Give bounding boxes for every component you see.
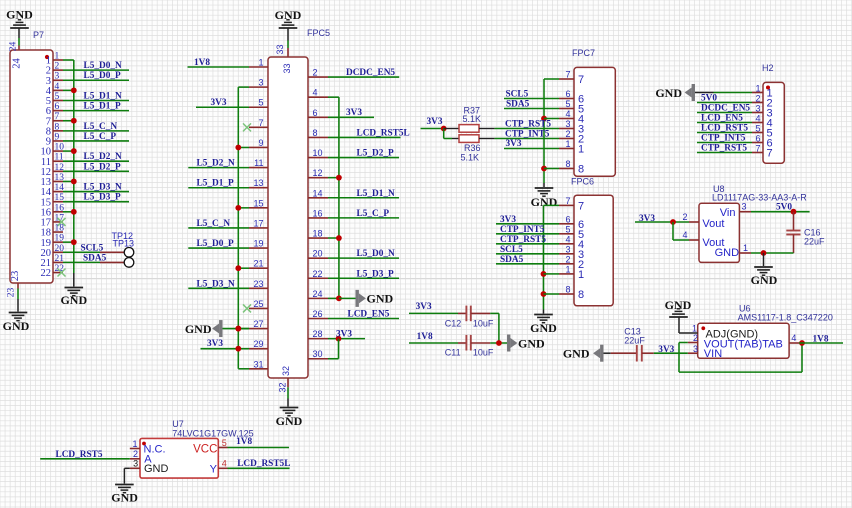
- svg-text:L5_D3_P: L5_D3_P: [84, 193, 122, 203]
- svg-text:6: 6: [755, 134, 760, 144]
- svg-text:L5_C_N: L5_C_N: [197, 219, 231, 229]
- svg-text:8: 8: [565, 285, 570, 295]
- svg-text:3: 3: [755, 104, 760, 114]
- svg-text:GND: GND: [530, 321, 557, 335]
- svg-text:6: 6: [313, 108, 318, 118]
- svg-text:5: 5: [55, 92, 60, 102]
- svg-text:GND: GND: [367, 292, 394, 306]
- svg-text:L5_D2_N: L5_D2_N: [197, 159, 236, 169]
- svg-text:P7: P7: [33, 30, 44, 40]
- svg-text:4: 4: [55, 82, 60, 92]
- svg-text:3V3: 3V3: [416, 302, 432, 312]
- svg-text:32: 32: [281, 366, 291, 376]
- svg-text:2: 2: [313, 68, 318, 78]
- svg-text:19: 19: [55, 234, 65, 244]
- svg-text:SCL5: SCL5: [500, 245, 523, 255]
- svg-text:14: 14: [55, 183, 65, 193]
- svg-text:CTP_INT5: CTP_INT5: [500, 225, 545, 235]
- svg-text:12: 12: [313, 168, 323, 178]
- svg-text:3: 3: [258, 78, 263, 88]
- svg-text:3V3: 3V3: [500, 215, 516, 225]
- svg-text:1: 1: [565, 264, 570, 274]
- svg-text:22: 22: [313, 269, 323, 279]
- svg-text:GND: GND: [276, 414, 303, 428]
- svg-text:L5_D3_P: L5_D3_P: [357, 269, 395, 279]
- svg-text:7: 7: [755, 144, 760, 154]
- svg-text:21: 21: [55, 254, 65, 264]
- svg-text:3V3: 3V3: [506, 139, 522, 149]
- svg-text:LCD_EN5: LCD_EN5: [701, 113, 743, 123]
- svg-text:12: 12: [55, 163, 65, 173]
- svg-text:L5_D2_N: L5_D2_N: [84, 152, 123, 162]
- svg-text:30: 30: [313, 349, 323, 359]
- svg-text:VCC: VCC: [193, 444, 217, 456]
- svg-text:L5_D1_P: L5_D1_P: [84, 102, 122, 112]
- svg-text:LCD_RST5: LCD_RST5: [701, 123, 748, 133]
- svg-text:AMS1117-1.8_C347220: AMS1117-1.8_C347220: [738, 313, 833, 323]
- svg-text:6: 6: [565, 214, 570, 224]
- svg-text:GND: GND: [3, 319, 30, 333]
- svg-text:H2: H2: [762, 63, 774, 73]
- svg-text:23: 23: [7, 288, 17, 298]
- svg-text:L5_D0_P: L5_D0_P: [197, 239, 235, 249]
- svg-text:15: 15: [253, 198, 263, 208]
- svg-text:9: 9: [55, 132, 60, 142]
- svg-text:18: 18: [313, 229, 323, 239]
- svg-text:8: 8: [565, 159, 570, 169]
- svg-text:15: 15: [55, 193, 65, 203]
- svg-text:25: 25: [253, 299, 263, 309]
- svg-text:FPC7: FPC7: [572, 48, 595, 58]
- svg-text:5V0: 5V0: [701, 93, 717, 103]
- svg-text:10: 10: [313, 148, 323, 158]
- svg-text:5: 5: [258, 98, 263, 108]
- svg-text:L5_D1_N: L5_D1_N: [84, 91, 123, 101]
- svg-text:29: 29: [253, 339, 263, 349]
- svg-text:3V3: 3V3: [427, 117, 443, 127]
- svg-text:1: 1: [743, 243, 748, 253]
- svg-text:22uF: 22uF: [624, 335, 645, 345]
- svg-text:Y: Y: [210, 464, 218, 476]
- svg-text:14: 14: [313, 188, 323, 198]
- svg-text:CTP_RST5: CTP_RST5: [505, 119, 551, 129]
- svg-text:33: 33: [275, 44, 285, 54]
- svg-text:2: 2: [565, 254, 570, 264]
- svg-text:23: 23: [253, 279, 263, 289]
- svg-text:7: 7: [578, 74, 584, 86]
- svg-text:3V3: 3V3: [639, 214, 655, 224]
- svg-text:2: 2: [565, 129, 570, 139]
- svg-text:7: 7: [565, 196, 570, 206]
- svg-text:1: 1: [55, 52, 60, 62]
- svg-text:7: 7: [55, 112, 60, 122]
- svg-text:5: 5: [222, 438, 227, 448]
- svg-text:L5_D0_P: L5_D0_P: [84, 71, 122, 81]
- svg-text:11: 11: [55, 153, 64, 163]
- svg-text:GND: GND: [185, 322, 212, 336]
- svg-text:4: 4: [791, 333, 796, 343]
- svg-text:4: 4: [565, 109, 570, 119]
- svg-text:SCL5: SCL5: [81, 243, 104, 253]
- svg-text:C11: C11: [445, 348, 461, 358]
- svg-text:2: 2: [55, 62, 60, 72]
- svg-text:CTP_INT5: CTP_INT5: [701, 133, 746, 143]
- svg-text:L5_D0_N: L5_D0_N: [84, 61, 123, 71]
- svg-text:23: 23: [10, 271, 21, 282]
- svg-text:CTP_INT5: CTP_INT5: [505, 129, 550, 139]
- svg-text:18: 18: [55, 224, 65, 234]
- svg-text:VIN: VIN: [704, 348, 722, 360]
- svg-text:16: 16: [55, 203, 65, 213]
- svg-text:7: 7: [258, 118, 263, 128]
- svg-text:C12: C12: [445, 318, 462, 328]
- svg-text:LD1117AG-33-AA3-A-R: LD1117AG-33-AA3-A-R: [712, 193, 807, 203]
- svg-text:FPC6: FPC6: [571, 177, 594, 187]
- svg-text:GND: GND: [111, 491, 138, 505]
- svg-text:3V3: 3V3: [207, 339, 223, 349]
- svg-text:22: 22: [55, 264, 65, 274]
- svg-text:SDA5: SDA5: [506, 100, 530, 110]
- svg-text:22: 22: [41, 268, 52, 279]
- svg-text:LCD_RST5L: LCD_RST5L: [357, 128, 410, 138]
- svg-text:3: 3: [55, 72, 60, 82]
- svg-text:LCD_EN5: LCD_EN5: [348, 310, 390, 320]
- svg-text:1: 1: [565, 139, 570, 149]
- svg-text:5: 5: [755, 124, 760, 134]
- svg-text:GND: GND: [715, 247, 740, 259]
- svg-text:17: 17: [253, 218, 263, 228]
- svg-text:16: 16: [313, 208, 323, 218]
- svg-text:10uF: 10uF: [473, 319, 494, 329]
- svg-text:21: 21: [253, 259, 263, 269]
- svg-text:1: 1: [578, 144, 584, 156]
- svg-text:6: 6: [55, 102, 60, 112]
- svg-text:10: 10: [55, 143, 65, 153]
- svg-text:5V0: 5V0: [776, 203, 792, 213]
- svg-text:1V8: 1V8: [236, 437, 252, 447]
- svg-text:CTP_RST5: CTP_RST5: [701, 143, 747, 153]
- svg-text:3V3: 3V3: [211, 98, 227, 108]
- svg-text:4: 4: [682, 230, 687, 240]
- svg-text:DCDC_EN5: DCDC_EN5: [701, 103, 750, 113]
- svg-text:4: 4: [313, 88, 318, 98]
- svg-text:1: 1: [258, 58, 263, 68]
- svg-text:L5_D1_P: L5_D1_P: [197, 179, 235, 189]
- svg-text:4: 4: [222, 459, 227, 469]
- svg-text:7: 7: [767, 147, 773, 159]
- svg-text:FPC5: FPC5: [307, 28, 330, 38]
- svg-text:26: 26: [313, 309, 323, 319]
- svg-text:4: 4: [755, 114, 760, 124]
- svg-text:32: 32: [278, 382, 288, 392]
- svg-text:L5_C_P: L5_C_P: [357, 209, 390, 219]
- svg-text:2: 2: [133, 449, 138, 459]
- svg-text:5: 5: [565, 99, 570, 109]
- svg-text:8: 8: [313, 128, 318, 138]
- svg-text:10uF: 10uF: [473, 348, 494, 358]
- svg-text:LCD_RST5: LCD_RST5: [56, 450, 103, 460]
- svg-text:17: 17: [55, 213, 65, 223]
- svg-text:L5_D3_N: L5_D3_N: [197, 279, 236, 289]
- svg-text:1V8: 1V8: [194, 58, 210, 68]
- svg-text:Vout: Vout: [702, 218, 724, 230]
- svg-text:5.1K: 5.1K: [461, 152, 480, 162]
- svg-text:L5_D0_N: L5_D0_N: [357, 249, 396, 259]
- svg-text:TP13: TP13: [113, 239, 135, 249]
- svg-text:GND: GND: [563, 347, 590, 361]
- svg-text:19: 19: [253, 239, 263, 249]
- svg-text:1: 1: [692, 323, 697, 333]
- svg-text:GND: GND: [655, 86, 682, 100]
- svg-text:11: 11: [254, 158, 263, 168]
- svg-text:SCL5: SCL5: [506, 90, 529, 100]
- svg-text:1: 1: [755, 84, 760, 94]
- svg-text:CTP_RST5: CTP_RST5: [500, 235, 546, 245]
- svg-text:SDA5: SDA5: [83, 253, 107, 263]
- svg-text:LCD_RST5L: LCD_RST5L: [237, 459, 290, 469]
- svg-text:5: 5: [565, 224, 570, 234]
- svg-text:13: 13: [55, 173, 65, 183]
- svg-text:L5_C_P: L5_C_P: [84, 132, 117, 142]
- svg-text:2: 2: [682, 212, 687, 222]
- svg-text:1: 1: [132, 439, 137, 449]
- svg-text:L5_D2_P: L5_D2_P: [357, 149, 395, 159]
- svg-text:27: 27: [253, 319, 263, 329]
- svg-text:8: 8: [55, 122, 60, 132]
- svg-text:R36: R36: [464, 143, 481, 153]
- svg-text:28: 28: [313, 329, 323, 339]
- svg-text:GND: GND: [60, 293, 87, 307]
- svg-text:1: 1: [578, 269, 584, 281]
- svg-text:L5_D2_P: L5_D2_P: [84, 162, 122, 172]
- svg-text:8: 8: [578, 164, 584, 176]
- svg-text:3: 3: [742, 202, 747, 212]
- svg-text:5.1K: 5.1K: [463, 114, 482, 124]
- svg-text:L5_C_N: L5_C_N: [84, 122, 118, 132]
- svg-text:2: 2: [755, 94, 760, 104]
- svg-text:13: 13: [253, 178, 263, 188]
- svg-text:1V8: 1V8: [417, 332, 433, 342]
- svg-text:L5_D1_N: L5_D1_N: [357, 189, 396, 199]
- svg-text:L5_D3_N: L5_D3_N: [84, 183, 123, 193]
- svg-text:DCDC_EN5: DCDC_EN5: [346, 68, 395, 78]
- svg-text:20: 20: [313, 249, 323, 259]
- svg-text:GND: GND: [751, 273, 778, 287]
- svg-text:3: 3: [133, 459, 138, 469]
- svg-text:33: 33: [282, 63, 292, 73]
- svg-text:8: 8: [578, 289, 584, 301]
- svg-text:22uF: 22uF: [804, 236, 825, 246]
- svg-text:U7: U7: [172, 419, 184, 429]
- svg-text:SDA5: SDA5: [500, 255, 524, 265]
- svg-text:24: 24: [313, 289, 323, 299]
- svg-text:GND: GND: [144, 463, 169, 475]
- svg-text:3: 3: [565, 244, 570, 254]
- svg-text:4: 4: [565, 234, 570, 244]
- svg-text:7: 7: [565, 70, 570, 80]
- svg-text:6: 6: [565, 89, 570, 99]
- svg-text:3: 3: [565, 119, 570, 129]
- svg-text:3V3: 3V3: [346, 108, 362, 118]
- svg-text:7: 7: [578, 201, 584, 213]
- svg-text:GND: GND: [518, 336, 545, 350]
- svg-text:1V8: 1V8: [813, 334, 829, 344]
- svg-text:9: 9: [258, 138, 263, 148]
- svg-text:31: 31: [253, 359, 263, 369]
- svg-text:GND: GND: [665, 298, 692, 312]
- svg-text:24: 24: [12, 58, 23, 69]
- svg-text:20: 20: [55, 244, 65, 254]
- svg-text:24: 24: [9, 42, 19, 52]
- svg-text:3V3: 3V3: [336, 329, 352, 339]
